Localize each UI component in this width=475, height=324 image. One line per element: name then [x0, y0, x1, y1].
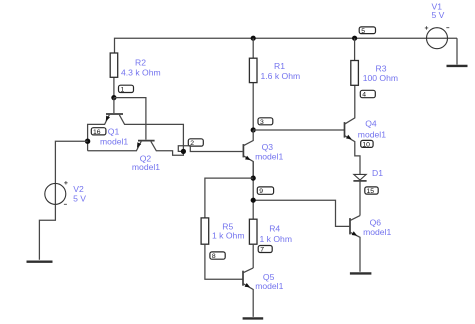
node 2	[188, 139, 203, 146]
svg-text:5 V: 5 V	[432, 10, 445, 20]
transistor Q5	[242, 271, 244, 286]
svg-text:3: 3	[260, 119, 264, 126]
svg-text:10: 10	[362, 142, 370, 149]
svg-text:5 V: 5 V	[73, 194, 86, 204]
wire node 1 to Q2 base	[114, 98, 146, 140]
ground at Q6	[350, 272, 372, 274]
wire R3 top lead	[354, 38, 356, 60]
svg-text:R2: R2	[135, 57, 146, 67]
svg-text:5: 5	[361, 28, 365, 35]
svg-text:R1: R1	[274, 61, 285, 71]
svg-text:100 Ohm: 100 Ohm	[363, 73, 398, 83]
svg-text:D1: D1	[372, 168, 383, 178]
wire node 2 to Q3 base	[178, 146, 242, 152]
svg-text:8: 8	[212, 253, 216, 260]
resistor R2	[110, 53, 118, 77]
resistor R1	[249, 58, 257, 82]
wire R5 to Q5 base	[205, 244, 243, 279]
voltage source V2	[45, 183, 66, 204]
svg-text:V2: V2	[73, 184, 84, 194]
resistor R3	[351, 61, 359, 86]
node 3	[258, 118, 273, 125]
svg-text:1: 1	[121, 87, 125, 94]
node 5	[359, 27, 375, 34]
svg-text:4: 4	[362, 92, 366, 99]
node 4	[360, 90, 375, 97]
diode D1	[354, 174, 366, 180]
junction node 3	[251, 127, 256, 132]
junction emitters to V2	[85, 139, 90, 144]
junction R5 branch	[251, 176, 256, 181]
svg-text:1.6 k Ohm: 1.6 k Ohm	[261, 71, 301, 81]
transistor Q1	[106, 113, 123, 115]
wire R1 leads	[252, 38, 254, 130]
wire V1 to ground	[456, 38, 458, 64]
wire node 3 to Q4 base	[253, 129, 344, 131]
ground at V2	[27, 261, 53, 263]
wire input to V2	[39, 141, 87, 260]
svg-text:15: 15	[367, 188, 375, 195]
junction rail/R3	[352, 36, 357, 41]
wire branch to R5	[205, 178, 253, 218]
svg-text:Q4: Q4	[365, 118, 377, 128]
node 15	[365, 187, 378, 194]
wire node 1 to Q1 base	[113, 98, 115, 114]
junction node 2	[181, 149, 186, 154]
svg-text:model1: model1	[358, 129, 386, 139]
junction node 9	[251, 198, 256, 203]
ground at V1	[447, 65, 468, 67]
svg-text:model1: model1	[132, 162, 160, 172]
svg-text:4.3 k Ohm: 4.3 k Ohm	[121, 67, 161, 77]
wire VCC top rail	[115, 38, 458, 53]
resistor R5	[201, 218, 209, 244]
transistor Q6	[349, 218, 351, 234]
svg-text:Q6: Q6	[370, 217, 382, 227]
ground at Q5	[243, 317, 264, 319]
node 8	[210, 252, 225, 259]
node 1	[119, 85, 134, 92]
transistor Q3	[242, 144, 244, 157]
svg-text:model1: model1	[100, 137, 128, 147]
svg-text:Q1: Q1	[108, 127, 120, 137]
node 7	[258, 246, 272, 253]
svg-text:model1: model1	[255, 152, 283, 162]
wire R4 to Q5 collector	[252, 244, 254, 268]
transistor Q4	[344, 122, 346, 138]
svg-text:model1: model1	[255, 281, 283, 291]
svg-text:9: 9	[259, 188, 263, 195]
junction rail/R1	[251, 36, 256, 41]
svg-text:1 k Ohm: 1 k Ohm	[212, 230, 244, 240]
voltage source V1	[427, 28, 448, 49]
wire node 9 to Q6 base	[253, 200, 350, 226]
node 10	[361, 140, 373, 147]
wire R2 to node 1	[113, 77, 115, 97]
svg-text:1 k Ohm: 1 k Ohm	[260, 234, 292, 244]
svg-text:R4: R4	[269, 224, 280, 234]
transistor Q2	[138, 140, 155, 142]
node 16	[91, 128, 106, 135]
svg-text:16: 16	[93, 129, 101, 136]
junction node 1	[111, 95, 116, 100]
svg-text:7: 7	[260, 247, 264, 254]
svg-text:model1: model1	[363, 227, 391, 237]
resistor R4	[249, 219, 257, 244]
node 9	[257, 187, 273, 194]
wire Q3 emitter to R4	[252, 162, 254, 220]
